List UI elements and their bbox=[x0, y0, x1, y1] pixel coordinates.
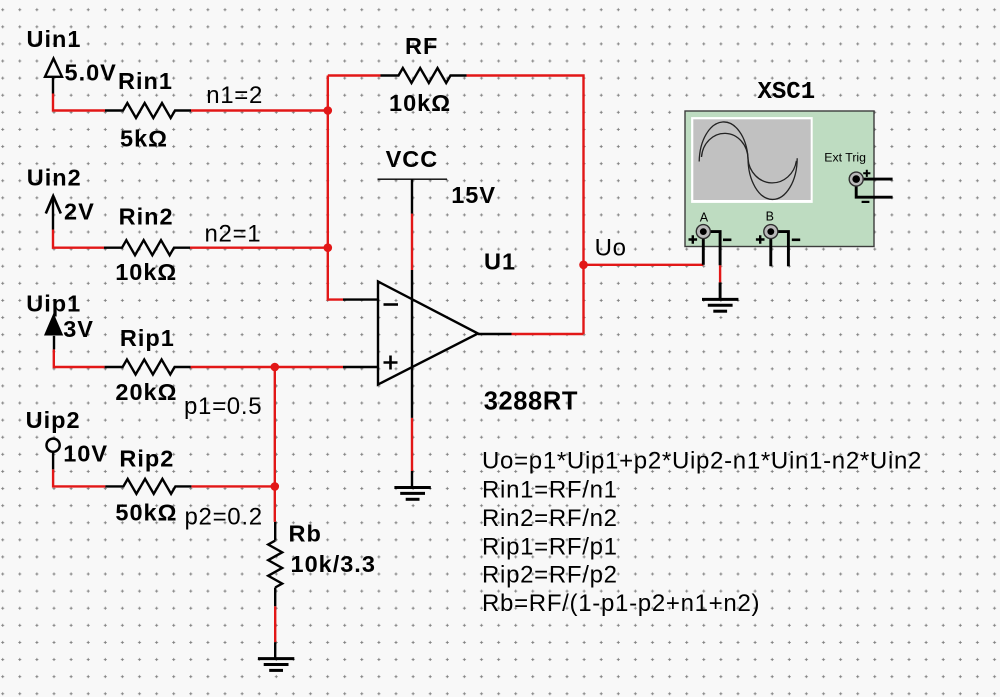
svg-text:Uo: Uo bbox=[595, 234, 627, 261]
svg-text:10k/3.3: 10k/3.3 bbox=[291, 551, 376, 577]
svg-text:Rin2: Rin2 bbox=[119, 204, 174, 230]
svg-text:Uip2: Uip2 bbox=[26, 407, 81, 433]
svg-text:Rin1=RF/n1: Rin1=RF/n1 bbox=[482, 476, 618, 503]
svg-text:Uin1: Uin1 bbox=[27, 26, 82, 52]
svg-text:Rb: Rb bbox=[289, 521, 322, 547]
svg-text:XSC1: XSC1 bbox=[758, 79, 816, 106]
svg-text:Rip2: Rip2 bbox=[119, 445, 174, 471]
svg-text:20kΩ: 20kΩ bbox=[115, 379, 177, 405]
svg-text:Rip2=RF/p2: Rip2=RF/p2 bbox=[482, 562, 618, 589]
svg-text:Uo=p1*Uip1+p2*Uip2-n1*Uin1-n2*: Uo=p1*Uip1+p2*Uip2-n1*Uin1-n2*Uin2 bbox=[482, 448, 922, 475]
svg-text:p1=0.5: p1=0.5 bbox=[184, 393, 262, 420]
svg-text:Rin1: Rin1 bbox=[118, 68, 173, 94]
svg-text:p2=0.2: p2=0.2 bbox=[185, 504, 263, 531]
svg-text:Uin2: Uin2 bbox=[27, 165, 82, 191]
svg-text:n1=2: n1=2 bbox=[206, 82, 263, 109]
svg-text:Uip1: Uip1 bbox=[26, 291, 81, 317]
svg-text:Rin2=RF/n2: Rin2=RF/n2 bbox=[482, 505, 618, 532]
svg-text:Rb=RF/(1-p1-p2+n1+n2): Rb=RF/(1-p1-p2+n1+n2) bbox=[482, 590, 760, 617]
svg-text:3V: 3V bbox=[63, 316, 94, 342]
svg-text:5kΩ: 5kΩ bbox=[120, 125, 168, 151]
svg-text:10kΩ: 10kΩ bbox=[389, 90, 451, 116]
svg-text:3288RT: 3288RT bbox=[484, 388, 578, 416]
svg-text:10kΩ: 10kΩ bbox=[115, 259, 177, 285]
svg-text:Rip1=RF/p1: Rip1=RF/p1 bbox=[482, 533, 618, 560]
svg-text:10V: 10V bbox=[63, 440, 108, 466]
svg-text:n2=1: n2=1 bbox=[205, 221, 262, 248]
svg-text:Rip1: Rip1 bbox=[120, 325, 175, 351]
svg-text:2V: 2V bbox=[64, 199, 95, 225]
svg-text:A: A bbox=[700, 211, 709, 225]
svg-text:5.0V: 5.0V bbox=[65, 60, 117, 86]
svg-text:B: B bbox=[766, 209, 774, 223]
svg-text:RF: RF bbox=[405, 33, 438, 59]
svg-text:Ext Trig: Ext Trig bbox=[824, 151, 866, 165]
svg-text:15V: 15V bbox=[451, 182, 496, 208]
svg-text:U1: U1 bbox=[484, 249, 516, 275]
svg-text:VCC: VCC bbox=[386, 146, 439, 172]
svg-text:50kΩ: 50kΩ bbox=[115, 500, 177, 526]
